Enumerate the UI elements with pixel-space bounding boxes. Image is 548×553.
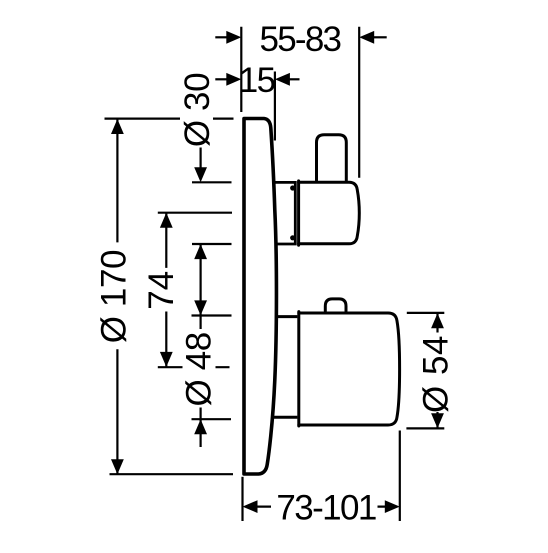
svg-text:Ø 30: Ø 30 [178,73,217,147]
upper handle body (diverter handle) [299,181,360,245]
dimension 55-83 [215,31,386,44]
dimension 73-101 [243,431,400,522]
stem knob on upper handle [317,135,347,181]
neck of thermostat knob Ø48 top edge [276,315,298,318]
sleeve notch top [290,185,295,190]
svg-text:15: 15 [239,61,275,100]
dimension 15 [215,73,299,86]
dimension Ø48 [192,300,232,447]
svg-text:Ø 170: Ø 170 [95,250,134,343]
dimension Ø170 [105,119,234,475]
svg-text:73-101: 73-101 [276,489,376,528]
dimension Ø54 [406,313,444,429]
svg-text:Ø 48: Ø 48 [179,332,218,406]
extension line wall plane (left ref of 55-83 and 15) [240,27,242,112]
extension line plate face (right ref of 15) [274,72,276,141]
svg-text:55-83: 55-83 [260,20,341,59]
dimension Ø30 [192,148,232,316]
svg-text:Ø 54: Ø 54 [417,335,456,413]
upper sleeve Ø30 (escutcheon of diverter valve) [273,182,295,244]
dimension 74 (axis distance) [158,213,232,368]
sleeve notch bottom [290,235,295,240]
wall plate (escutcheon, side profile) [244,119,276,475]
svg-text:74: 74 [142,271,181,310]
grip tab on thermostat knob [325,299,346,311]
neck of thermostat knob Ø48 bottom edge [273,416,298,419]
extension line handle face (right ref of 55-83) [358,27,360,178]
lower thermostat knob body [299,312,400,426]
